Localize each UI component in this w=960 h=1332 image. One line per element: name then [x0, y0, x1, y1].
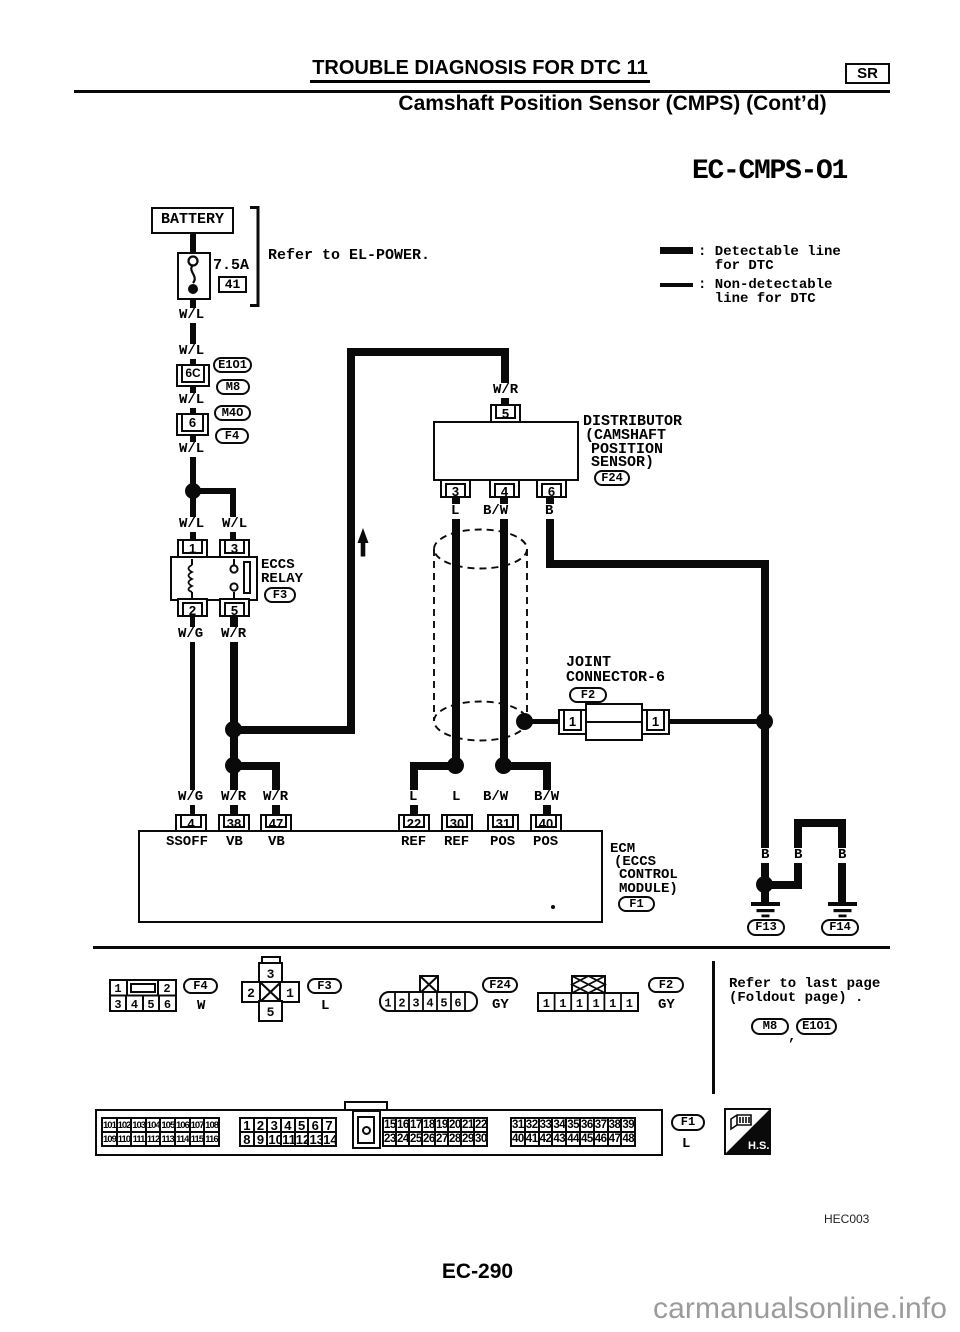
label L at ECM pin30 [450, 790, 462, 805]
connector ref F1 oval bottom [671, 1114, 705, 1131]
distributor pin 4 [489, 479, 520, 498]
wire B distributor pin6 down [546, 498, 554, 568]
svg-text:3: 3 [412, 997, 419, 1011]
label W/R above distributor [491, 383, 520, 398]
svg-text:4: 4 [426, 997, 433, 1011]
diagram code EC-CMPS-01 [692, 156, 847, 187]
wire B horizontal run right [546, 560, 769, 568]
ECCS relay pin 2 [177, 598, 208, 617]
ground symbol F13 [751, 902, 780, 919]
bottom separator rule [93, 946, 890, 949]
ECCS relay pin 3 [219, 539, 250, 558]
legend detectable text [698, 246, 841, 273]
label B below pin6 [543, 504, 555, 519]
page number EC-290 [420, 1260, 535, 1284]
connector ref M8 oval bottom [751, 1018, 789, 1035]
label W/L 3 [177, 393, 206, 408]
page header title [0, 57, 960, 80]
ECCS relay internals [170, 556, 258, 601]
HEC003 code [824, 1212, 869, 1226]
bracket refer EL-POWER [249, 206, 261, 307]
wire ground tie horizontal [765, 881, 802, 889]
svg-text:5: 5 [267, 1005, 275, 1020]
flow arrow up [353, 527, 373, 558]
wire L distributor pin3 down [452, 498, 460, 766]
ECM pin name VB 47 [268, 836, 285, 850]
vertical divider [712, 961, 715, 1094]
connector ref E101 oval [213, 357, 252, 373]
comma separator [788, 1031, 796, 1045]
label B right [836, 848, 848, 863]
refer to last page text [729, 978, 880, 1005]
junction node ground tie [756, 876, 773, 893]
label W/R below relay [219, 627, 248, 642]
JOINT CONNECTOR-6 label [566, 656, 665, 685]
label W/G at ECM [176, 790, 205, 805]
distributor label line 3 [591, 443, 663, 457]
wire right B down to ground [838, 819, 846, 903]
subtitle [300, 92, 925, 116]
ECCS RELAY label [261, 559, 303, 586]
ECM pin name POS 31 [490, 836, 515, 850]
header rule [74, 90, 890, 93]
ECM name line 2 [614, 856, 656, 870]
svg-text:3: 3 [114, 998, 121, 1012]
pin grid group 15-30 [382, 1117, 488, 1147]
ground symbol F14 [828, 902, 857, 919]
svg-text:1: 1 [592, 997, 599, 1011]
connector ref F3 oval bottom [307, 978, 342, 994]
SR tab box [845, 63, 890, 84]
distributor pin 5 [490, 404, 521, 423]
connector 6C [176, 364, 210, 387]
connector ref M8 oval [216, 379, 250, 395]
junction node B riser joint [756, 713, 773, 730]
color code W [197, 1000, 205, 1014]
wire joint connector to B riser [670, 719, 765, 724]
ECM name line 4 [619, 883, 678, 897]
wire down to pin40 [543, 762, 551, 815]
ECM pin name POS 40 [533, 836, 558, 850]
label L at ECM pin22 [407, 790, 419, 805]
label W/G below relay [176, 627, 205, 642]
ECM pin 31 [487, 814, 519, 832]
legend non-detectable text [698, 279, 832, 306]
ECM pin name SSOFF [166, 836, 208, 850]
shield cylinder dashed [425, 522, 537, 748]
ECM connector outer box [95, 1109, 663, 1156]
connector ref F13 oval [747, 919, 785, 936]
wire thick branch to riser [234, 726, 355, 734]
watermark [600, 1292, 947, 1326]
junction node W/L split [185, 483, 201, 499]
junction node B/W split [495, 757, 512, 774]
ECM pin name REF 22 [401, 836, 426, 850]
ECM pin 47 [260, 814, 292, 832]
wire shield to joint connector [525, 719, 561, 724]
color code GY [492, 999, 509, 1013]
wire thick top run [347, 348, 509, 356]
distributor pin 3 [440, 479, 471, 498]
ECM pin name VB 38 [226, 836, 243, 850]
svg-text:1: 1 [543, 997, 550, 1011]
wire bridge top [794, 819, 846, 827]
pin grid group 31-48 [510, 1117, 636, 1147]
wire down to pin22 [410, 762, 418, 815]
connector ref F2 oval bottom [648, 977, 684, 993]
distributor label line 4 [591, 456, 654, 470]
wire down to pin 47 [272, 762, 280, 815]
svg-text:5: 5 [440, 997, 447, 1011]
connector ref F3 oval [264, 587, 296, 603]
wire W/R drop to distributor pin5 [501, 356, 509, 405]
ECM pin 4 [175, 814, 207, 832]
label L below pin3 [449, 504, 461, 519]
fuse 7.5A symbol [177, 252, 211, 300]
label B/W below pin4 [481, 504, 510, 519]
junction node W/R to pin47 branch [225, 757, 242, 774]
color code GY 2 [658, 999, 675, 1013]
svg-text:1: 1 [286, 986, 294, 1001]
wire W/G relay pin2 to ECM pin4 [190, 617, 195, 815]
label B middle [792, 848, 804, 863]
label W/L 2 [177, 344, 206, 359]
label W/L at relay pin 1 [177, 517, 206, 532]
label W/R at ECM pin47 [261, 790, 290, 805]
connector ref F24 oval [594, 470, 630, 486]
ECCS relay body [170, 556, 258, 601]
legend detectable bar [660, 247, 693, 254]
distributor label line 2 [585, 429, 666, 443]
joint connector right pin 1 [641, 709, 670, 735]
junction node shield drain [516, 713, 533, 730]
ECM pin 30 [441, 814, 473, 832]
ECM connector key circle [362, 1126, 371, 1135]
connector ref F14 oval [821, 919, 859, 936]
distributor pin 6 [536, 479, 567, 498]
ECM name text [610, 843, 635, 857]
connector face F3 cross [240, 955, 302, 1023]
wire battery to fuse [190, 233, 196, 253]
wire middle B up [794, 823, 802, 885]
connector ref E101 oval bottom [796, 1018, 837, 1035]
ECM name line 3 [619, 869, 678, 883]
svg-text:2: 2 [163, 982, 170, 996]
connector 6 [176, 413, 209, 436]
svg-text:6: 6 [454, 997, 461, 1011]
label W/L 1 [177, 308, 206, 323]
wire B right riser down to ground [761, 560, 769, 903]
ECM connector key block [352, 1110, 381, 1149]
svg-text:1: 1 [384, 997, 391, 1011]
ECCS relay pin 5 [219, 598, 250, 617]
ECM pin 40 [530, 814, 562, 832]
wire branch to relay pin 3 [192, 488, 236, 494]
distributor body [433, 421, 579, 481]
label B/W at ECM pin31 [481, 790, 510, 805]
ECM box [138, 830, 603, 923]
svg-text:1: 1 [609, 997, 616, 1011]
ECM connector tab [344, 1101, 388, 1114]
ECM pin 38 [218, 814, 250, 832]
legend non-detectable bar [660, 283, 693, 287]
svg-text:1: 1 [576, 997, 583, 1011]
fuse number 41 box [218, 276, 247, 293]
joint connector left pin 1 [558, 709, 587, 735]
wire W/R relay pin5 down (detectable) [230, 617, 238, 815]
connector ref F24 oval bottom [482, 977, 518, 993]
fuse rating 7.5A [213, 259, 249, 273]
svg-text:5: 5 [147, 998, 154, 1012]
color code L [321, 1000, 329, 1014]
distributor label text [583, 415, 682, 429]
joint connector body midline [587, 721, 641, 723]
connector face F4 [109, 979, 177, 1012]
label W/R at ECM pin38 [219, 790, 248, 805]
speck inside ECM box [551, 905, 555, 909]
pin grid group 1-14 [239, 1117, 337, 1147]
ECCS relay pin 1 [177, 539, 208, 558]
junction node W/R to riser [225, 721, 242, 738]
ECM pin 22 [398, 814, 430, 832]
svg-text:1: 1 [559, 997, 566, 1011]
connector ref F4 oval [215, 428, 249, 444]
connector ref F4 oval bottom [183, 978, 218, 994]
color code L 2 [682, 1138, 690, 1152]
connector ref M40 oval [214, 405, 251, 421]
svg-text:3: 3 [267, 967, 275, 982]
svg-text:1: 1 [626, 997, 633, 1011]
svg-text:1: 1 [114, 982, 121, 996]
wire down to relay pin 3 [230, 488, 236, 541]
wire thick riser up [347, 348, 355, 734]
label B/W at ECM pin40 [532, 790, 561, 805]
refer to EL-POWER text [268, 249, 430, 263]
wire branch right to pin40 [504, 762, 551, 770]
H.S. logo box [724, 1108, 771, 1155]
wire B/W distributor pin4 down [500, 498, 508, 766]
connector ref F2 oval [569, 687, 607, 703]
ECM connector key inner [357, 1116, 375, 1144]
connector face F2 strip [537, 975, 639, 1013]
label B left [759, 848, 771, 863]
connector ref F1 oval [618, 896, 655, 912]
svg-text:2: 2 [247, 986, 255, 1001]
svg-text:2: 2 [398, 997, 405, 1011]
ECM pin name REF 30 [444, 836, 469, 850]
wire W/L fuse down to relay [190, 299, 196, 542]
connector face F24 strip [379, 975, 478, 1013]
label W/L at relay pin 3 [220, 517, 249, 532]
label W/L 4 [177, 442, 206, 457]
svg-text:4: 4 [131, 998, 138, 1012]
junction node L split [447, 757, 464, 774]
pin grid group 101-116 [101, 1117, 220, 1147]
wire branch right to pin 47 [234, 762, 280, 770]
svg-text:6: 6 [164, 998, 171, 1012]
joint connector body [585, 703, 643, 741]
wire branch left to pin22 [410, 762, 456, 770]
battery box [151, 207, 234, 234]
svg-text:H.S.: H.S. [748, 1140, 769, 1152]
